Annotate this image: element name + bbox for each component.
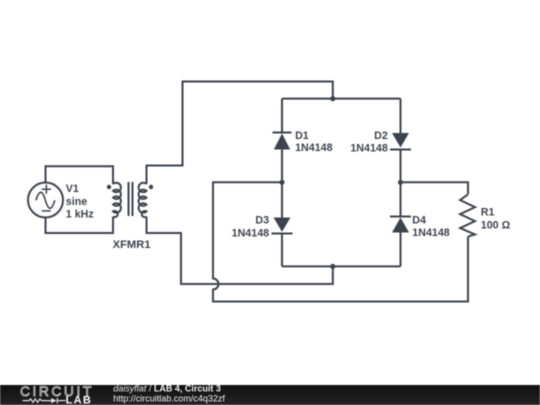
svg-text:D3: D3 xyxy=(255,215,269,227)
svg-text:http://circuitlab.com/c4q32zf: http://circuitlab.com/c4q32zf xyxy=(113,394,225,404)
svg-text:sine: sine xyxy=(66,196,87,208)
svg-text:XFMR1: XFMR1 xyxy=(113,239,151,251)
svg-text:LAB: LAB xyxy=(66,394,93,405)
svg-text:V1: V1 xyxy=(66,183,79,195)
svg-text:D4: D4 xyxy=(412,214,426,226)
svg-text:1N4148: 1N4148 xyxy=(412,227,449,239)
svg-text:1N4148: 1N4148 xyxy=(232,228,269,240)
svg-text:1N4148: 1N4148 xyxy=(350,143,387,155)
svg-text:daisyflat / LAB 4, Circuit 3: daisyflat / LAB 4, Circuit 3 xyxy=(113,384,221,394)
svg-text:100 Ω: 100 Ω xyxy=(481,220,511,232)
svg-text:1 kHz: 1 kHz xyxy=(66,209,94,221)
svg-text:D1: D1 xyxy=(295,130,309,142)
svg-text:R1: R1 xyxy=(481,206,495,218)
svg-text:1N4148: 1N4148 xyxy=(295,142,332,154)
svg-text:D2: D2 xyxy=(374,130,388,142)
